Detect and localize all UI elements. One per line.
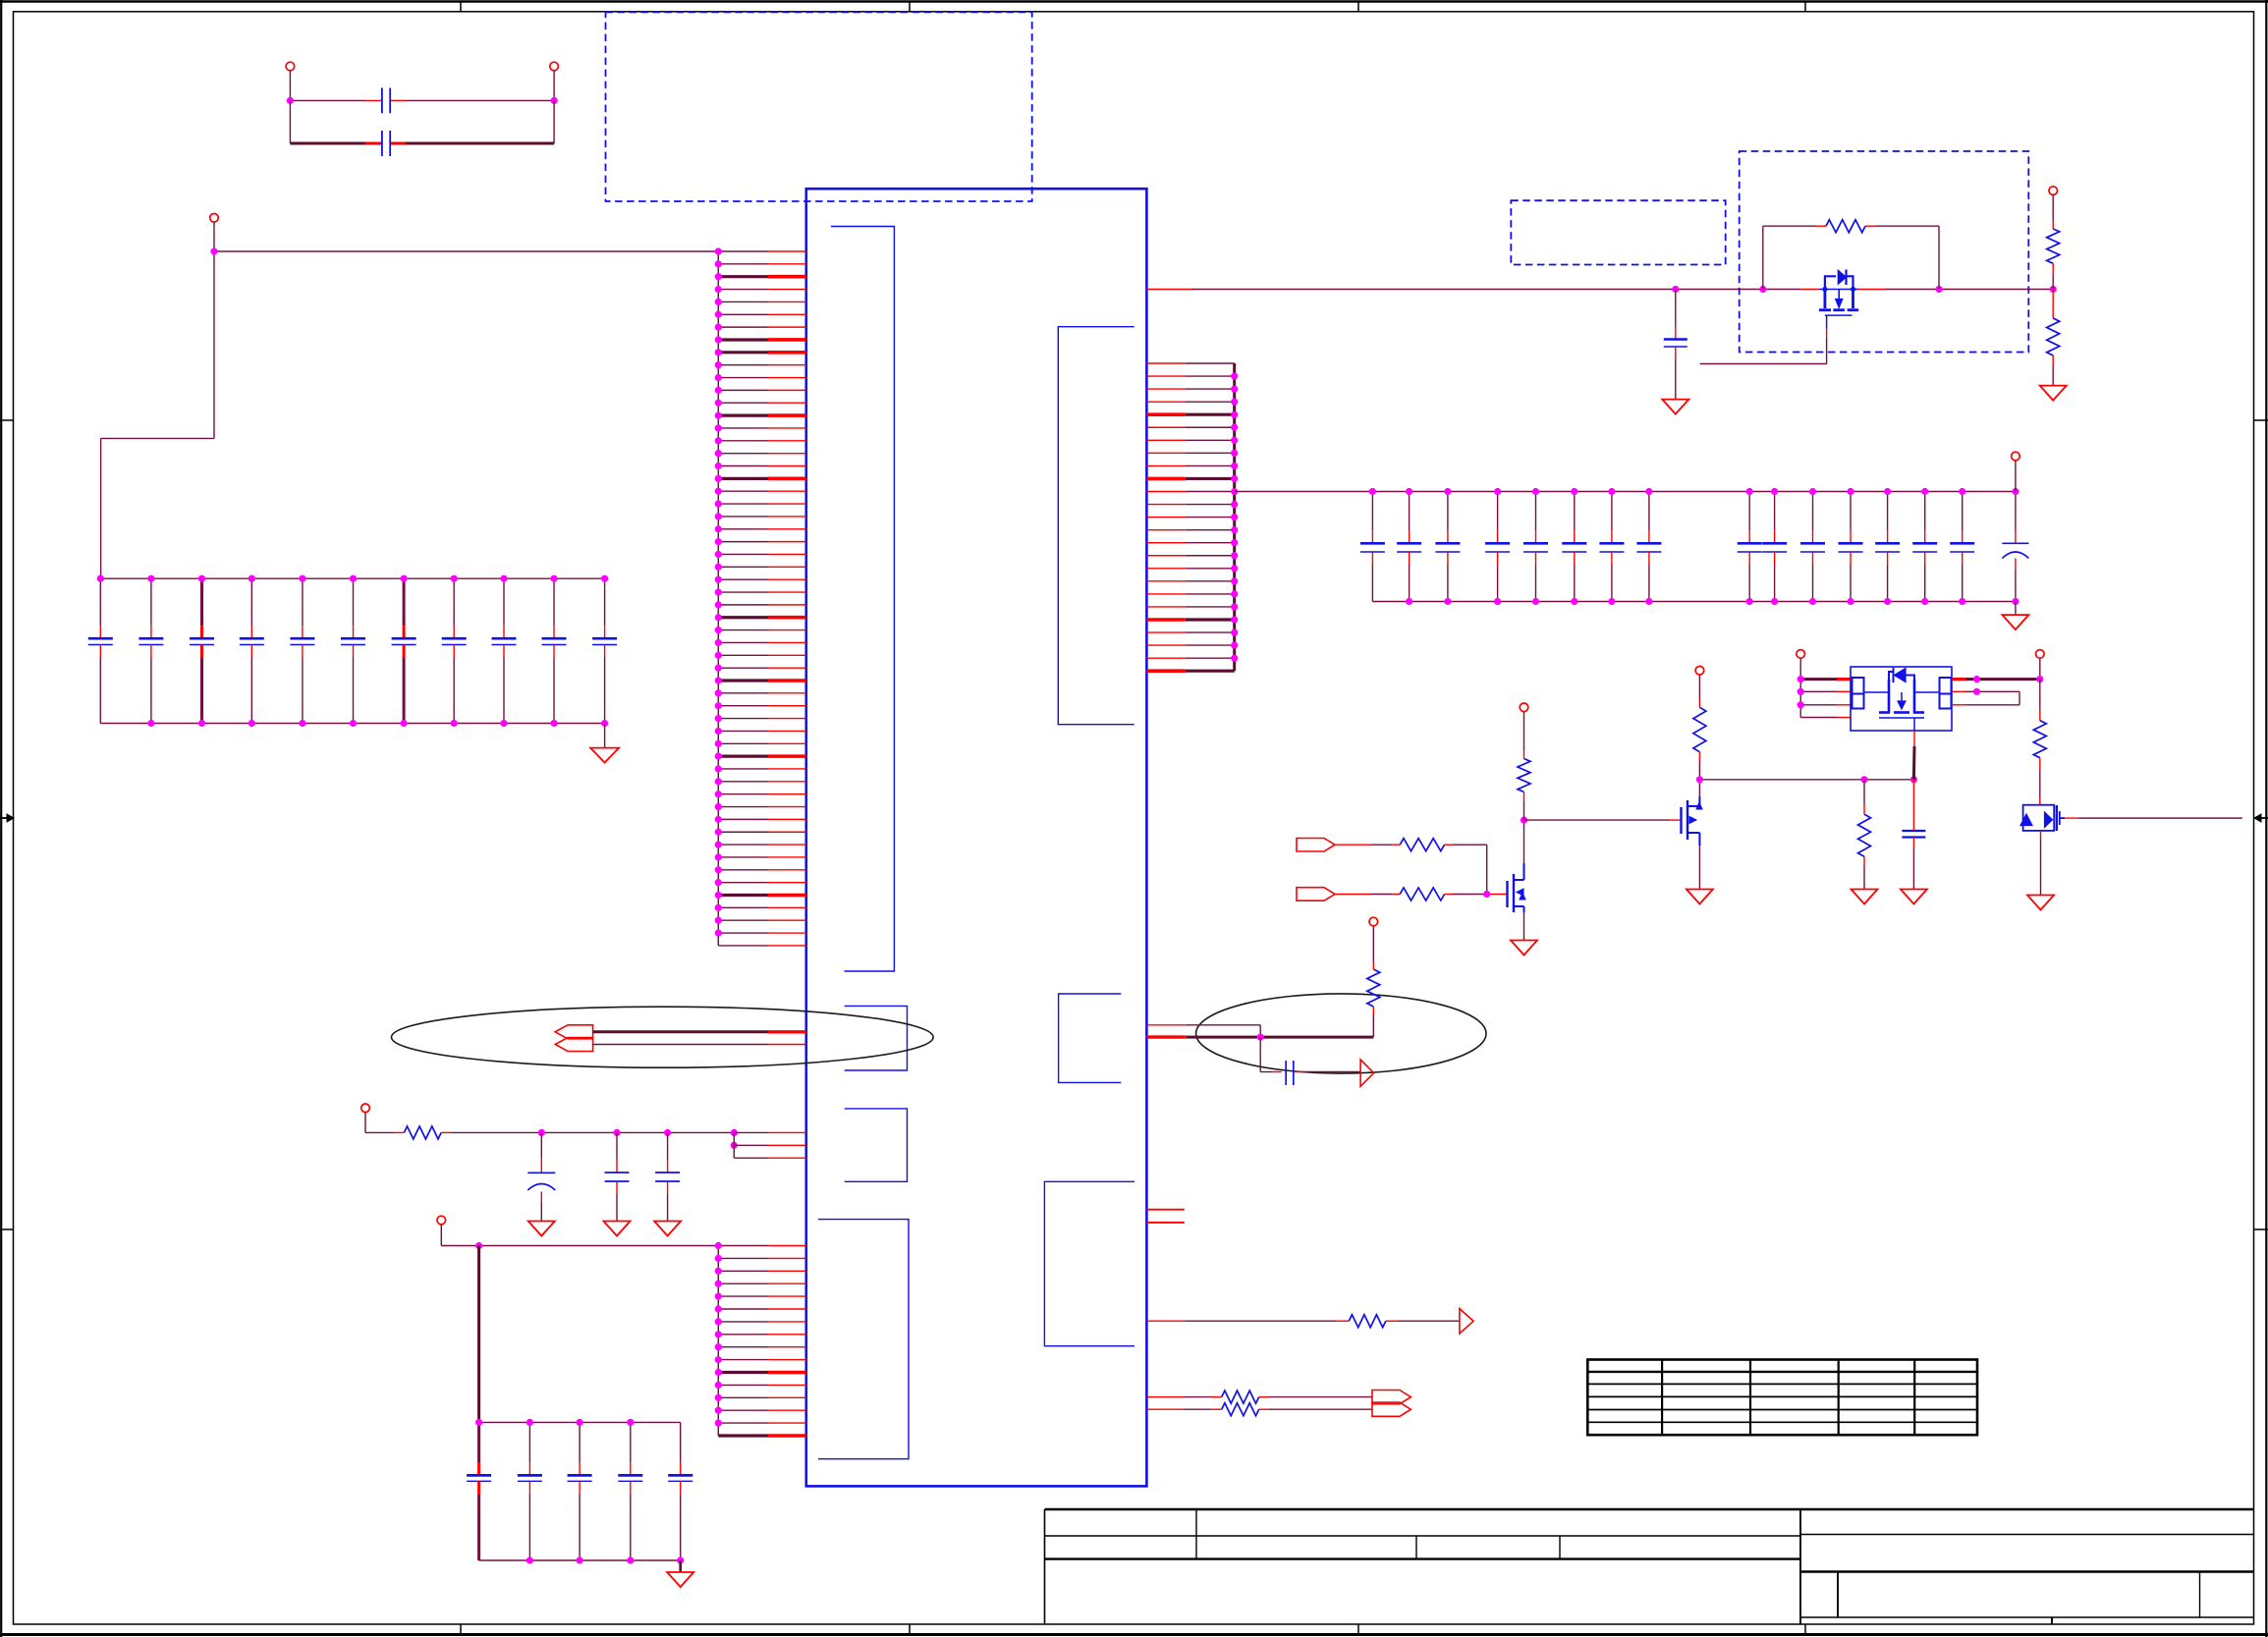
port P8	[437, 1216, 446, 1245]
resistor R2 (divider top)	[2047, 229, 2060, 290]
wire lower cap bank top rail	[479, 1421, 681, 1423]
capacitor C2 (series, bottom)	[382, 131, 390, 156]
capacitor C35	[467, 1422, 491, 1560]
IC U1 left pin bank bus wire	[717, 251, 719, 946]
wire Q1 drain up	[1523, 820, 1525, 863]
wire Q5 gate	[1700, 329, 1827, 363]
junction dots U2 right	[1973, 676, 2043, 695]
capacitor C34	[655, 1132, 680, 1221]
capacitor C9	[392, 578, 416, 723]
ground GND13	[2027, 896, 2054, 910]
connector arrow J2	[555, 1038, 592, 1052]
wire IC pin to R7	[1146, 1408, 1221, 1410]
wire R9 to Q1 gate	[1445, 894, 1508, 896]
capacitor C39	[668, 1422, 692, 1560]
ground GND6	[604, 1222, 631, 1236]
ground GND5	[528, 1222, 555, 1236]
capacitor C27	[1912, 492, 1937, 602]
connector arrow J4	[1372, 1402, 1411, 1416]
transistor Q1 (n-mosfet)	[1508, 863, 1526, 912]
capacitor C40	[1902, 780, 1925, 890]
connector arrow J1	[555, 1025, 592, 1039]
capacitor C16	[1435, 492, 1460, 602]
capacitor C31 (series)	[1286, 1061, 1294, 1085]
capacitor C11	[492, 578, 517, 723]
port P1	[286, 62, 295, 100]
IC U1 left pin bank wires (56 pins)	[718, 251, 806, 946]
wire P8 to pin bus	[441, 1245, 718, 1247]
IC U1 inner block F	[1059, 994, 1122, 1082]
capacitor C12	[542, 578, 567, 723]
wire Q1 drain to Q2 gate	[1524, 819, 1682, 821]
IC U1 right pin bank bus wire	[1233, 363, 1236, 671]
dashed annotation box (upper right small)	[1511, 200, 1725, 264]
junction dot Q1 drain	[1521, 817, 1527, 824]
junction dot Q1 gate	[1483, 891, 1490, 898]
IC U1 inner block A	[831, 227, 895, 972]
port P6	[1369, 917, 1378, 926]
junction dots net A	[287, 97, 558, 104]
resistor R12	[1858, 780, 1871, 890]
revision table	[1587, 1360, 1977, 1436]
wire top-left net B (bottom, bus)	[290, 100, 554, 143]
connector arrow J3	[1372, 1391, 1411, 1404]
port P10	[1695, 666, 1704, 675]
resistor R4	[1367, 926, 1380, 1037]
wire R8 to gate node	[1445, 845, 1487, 894]
ground GND4	[2040, 386, 2067, 401]
wire left cap bank top rail	[100, 577, 604, 579]
capacitor C8	[341, 578, 365, 723]
IC U1 inner block G	[1044, 1181, 1134, 1345]
IC U1 inner block C	[845, 1109, 908, 1181]
wire U2 bottom pin down	[1912, 731, 1915, 780]
capacitor C25	[1839, 492, 1863, 602]
junction dots lower cap bank	[475, 1419, 684, 1564]
junction dot at P3 stem	[210, 247, 217, 254]
wire IC pin to R14	[1146, 1320, 1349, 1322]
capacitor C21	[1636, 492, 1661, 602]
IC U1 right pin bank junction dots	[1231, 372, 1238, 661]
IC U1 unconnected pin stub 1	[1146, 1209, 1184, 1211]
wire net VIN down-jog to cap bank	[101, 251, 214, 578]
ground GND8	[667, 1560, 693, 1587]
capacitor C13	[592, 578, 617, 723]
wire lower cap bank bottom rail	[479, 1559, 681, 1561]
wire bus down to lower cap bank (thick)	[477, 1246, 480, 1423]
dual mosfet U2	[1851, 667, 1952, 731]
capacitor C24	[1800, 492, 1825, 602]
resistor R8	[1400, 839, 1444, 851]
wire Q4 gate to frame right	[2065, 817, 2242, 819]
capacitor C6	[240, 578, 264, 723]
wire top-left net A	[290, 99, 554, 101]
capacitor C15	[1397, 492, 1421, 602]
resistor R7	[1222, 1403, 1259, 1416]
port P5	[2049, 187, 2058, 229]
ground GND10	[1687, 890, 1713, 904]
wire U2 right pin2 loop	[1952, 691, 2019, 705]
wire net VDDIO from IC to divider	[1146, 289, 2053, 291]
capacitor C26	[1875, 492, 1900, 602]
wire J2 to IC	[593, 1044, 806, 1046]
ground GND12	[1901, 890, 1927, 904]
wire right cap bank bottom rail	[1372, 601, 2015, 603]
capacitor C5	[190, 578, 214, 723]
ground GND3	[1662, 400, 1688, 414]
wire node X branch down	[1260, 1037, 1282, 1071]
resistor R9	[1400, 888, 1444, 900]
transistor Q5 (p-mosfet with body diode)	[1819, 270, 1858, 330]
ground GND7	[654, 1222, 681, 1236]
capacitor C36	[518, 1422, 542, 1560]
IC U1 inner block D	[818, 1220, 909, 1459]
wire Q2 source to ground	[1698, 846, 1700, 890]
capacitor C17	[1485, 492, 1510, 602]
capacitor C30	[1664, 290, 1687, 400]
port P9	[1520, 703, 1528, 712]
resistor R13	[2033, 680, 2046, 805]
resistor R11	[1693, 675, 1706, 780]
IC U1 main outline	[806, 189, 1147, 1486]
transistor Q4 (mosfet, horizontal)	[2020, 805, 2065, 831]
wire R7 to arrow J4	[1259, 1408, 1372, 1410]
wire Q1 source to ground	[1523, 912, 1525, 941]
wire mid rail	[1699, 779, 1913, 781]
junction dots U2 left	[1798, 676, 1804, 708]
port P2	[550, 62, 559, 100]
port P7	[361, 1104, 370, 1132]
wire J5 to R8	[1335, 844, 1400, 846]
dashed annotation box (around top-right mosfet)	[1740, 151, 2029, 353]
wire J6 to R9	[1335, 894, 1400, 896]
ground GND11	[1852, 890, 1878, 904]
IC U1 unconnected pin stub 2	[1146, 1222, 1184, 1224]
IC U1 right pin bank wires (25 pins)	[1146, 363, 1234, 671]
wire left cap bank bottom rail	[100, 723, 604, 725]
ground GND1	[590, 724, 619, 763]
IC U1 lower-left pin bank junction dots	[715, 1242, 722, 1427]
junction dots right cap bank	[1369, 488, 2019, 605]
junction dots left cap bank	[97, 575, 609, 728]
capacitor C29 (polarized)	[2002, 492, 2028, 602]
callout ellipse (left)	[392, 1007, 934, 1067]
junction dot node X	[1257, 1034, 1264, 1041]
transistor Q2 (p-mosfet)	[1682, 796, 1703, 846]
capacitor C3	[88, 578, 113, 723]
capacitor C1 (series, top)	[382, 88, 390, 114]
port P12	[2036, 650, 2045, 680]
capacitor C22	[1738, 492, 1762, 602]
wires P11 to U2 left pins	[1800, 680, 1851, 718]
wire IC pin to resistor (thick)	[1146, 1035, 1373, 1038]
wire J1 to IC (thick)	[593, 1030, 806, 1033]
capacitor C14	[1360, 492, 1385, 602]
wire Q2 drain up	[1698, 780, 1700, 796]
callout ellipse (right)	[1196, 994, 1486, 1073]
resistor R6	[1222, 1391, 1259, 1403]
IC U1 lower-left pin bank bus wire	[717, 1246, 719, 1436]
ground GND9	[1511, 941, 1537, 955]
title block	[1045, 1509, 2254, 1624]
port P11	[1797, 650, 1805, 680]
port P4	[2012, 452, 2020, 491]
capacitor C18	[1523, 492, 1548, 602]
connector J5	[1297, 839, 1335, 852]
junction dots RC net	[538, 1129, 738, 1149]
wire IC pin to node X (upper)	[1146, 1025, 1260, 1037]
resistor R5	[365, 1126, 734, 1139]
port P3	[210, 214, 219, 252]
wire right cap bank top rail	[1235, 491, 2016, 493]
diode/buffer triangle D2	[1460, 1309, 1473, 1334]
capacitor C10	[442, 578, 467, 723]
capacitor C23	[1762, 492, 1787, 602]
IC U1 inner block B	[845, 1006, 908, 1070]
IC U1 left pin bank junction dots	[715, 247, 722, 936]
junction dot P8 net	[475, 1242, 482, 1249]
wire IC pin to R6	[1146, 1396, 1221, 1398]
capacitor C28	[1950, 492, 1974, 602]
wire RC to IC pins (3)	[734, 1132, 806, 1158]
wire C31 to D1	[1294, 1071, 1360, 1073]
capacitor C7	[290, 578, 314, 723]
capacitor C33	[605, 1132, 630, 1221]
capacitor C38	[618, 1422, 642, 1560]
wire net VIN to pin bus	[214, 250, 718, 252]
connector J6	[1297, 888, 1335, 901]
capacitor C20	[1599, 492, 1624, 602]
resistor R10	[1518, 712, 1530, 821]
wire Q4 source to ground	[2040, 831, 2042, 896]
capacitor C37	[568, 1422, 592, 1560]
resistor R1 (feedback)	[1826, 220, 1865, 233]
ground GND2	[2002, 602, 2028, 630]
IC U1 inner block E	[1058, 327, 1134, 725]
resistor R14	[1349, 1315, 1386, 1328]
resistor R3 (divider bottom)	[2047, 290, 2060, 386]
wire R14 to D2	[1386, 1320, 1460, 1322]
dashed annotation box (top center)	[606, 12, 1032, 201]
IC U1 lower-left pin bank wires (16 pins)	[718, 1246, 806, 1437]
wire U2 right pin1 to P12	[1952, 678, 2040, 681]
wire R6 to arrow J3	[1259, 1396, 1372, 1398]
wire feedback loop	[1763, 226, 1939, 289]
junction dots net VDDIO	[1672, 286, 2057, 293]
junction dots mid rail	[1696, 776, 1917, 783]
diode/buffer triangle D1	[1360, 1060, 1374, 1086]
capacitor C4	[138, 578, 163, 723]
capacitor C19	[1562, 492, 1586, 602]
capacitor C32 (polarized)	[527, 1132, 555, 1221]
